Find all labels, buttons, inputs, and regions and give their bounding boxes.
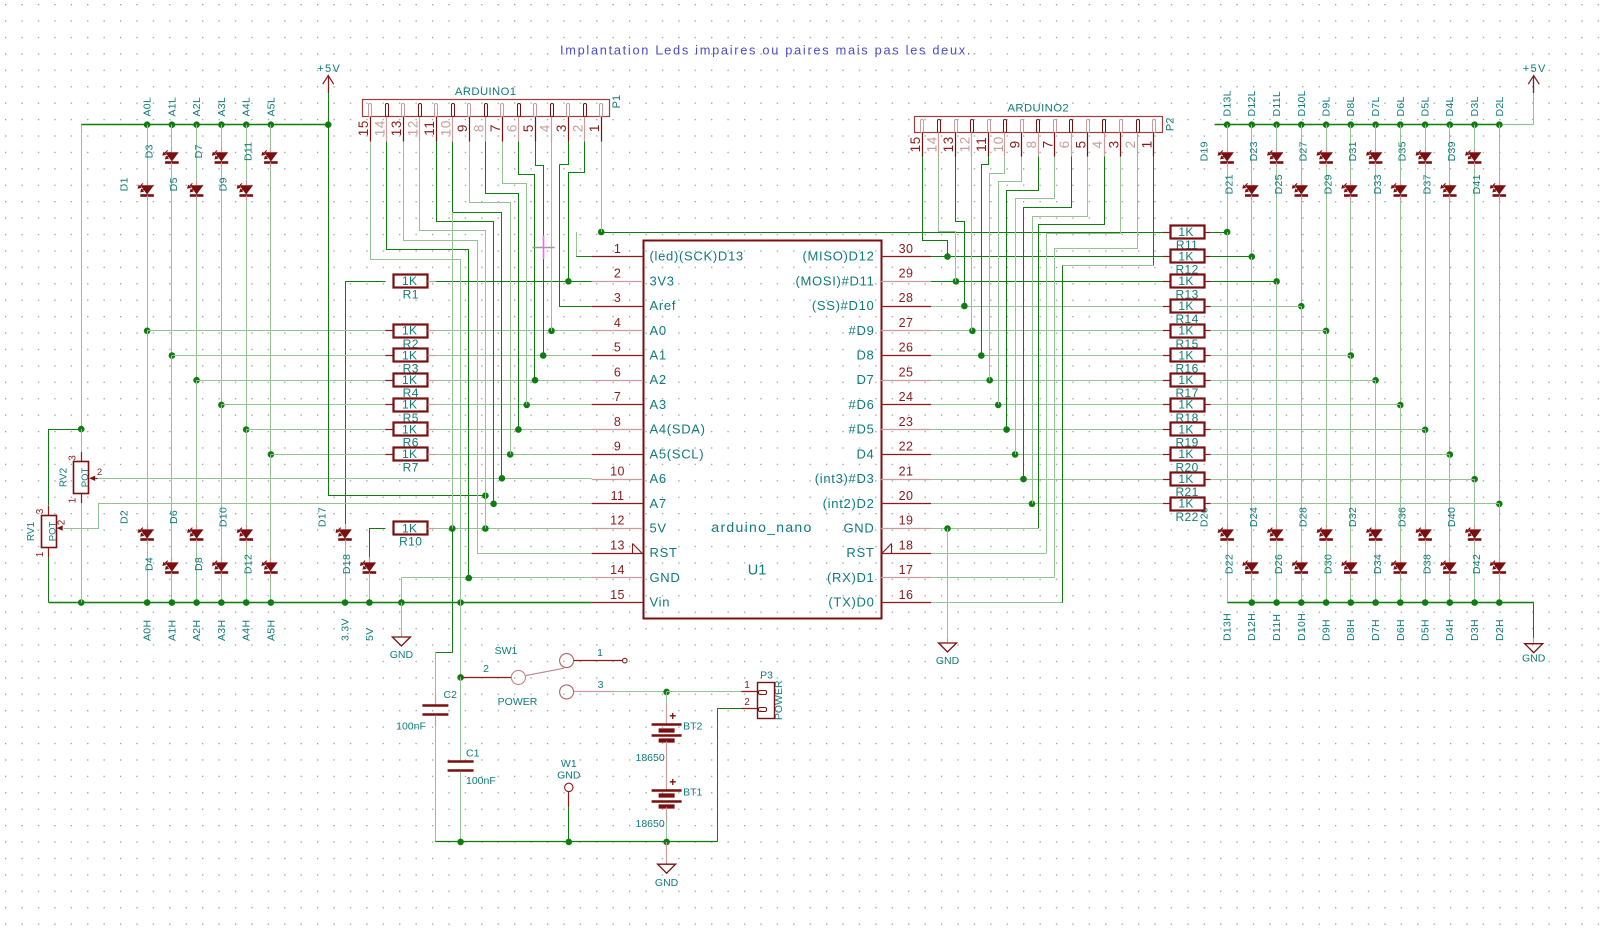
- svg-text:D2L: D2L: [1494, 96, 1506, 116]
- wire bottom bus right: [1227, 602, 1534, 604]
- wire P2 pin 11 staircase to row 26: [982, 157, 989, 356]
- svg-text:1: 1: [68, 497, 79, 503]
- wire A4 row stub into resistor: [385, 429, 393, 431]
- svg-text:15: 15: [610, 588, 625, 602]
- wire A4 row from R6 to U1: [428, 429, 436, 431]
- junction +5V left: [325, 121, 332, 128]
- U1 pin 10 stub: [592, 479, 643, 481]
- wire column A3H to bottom bus: [221, 578, 223, 603]
- svg-text:100nF: 100nF: [396, 721, 426, 733]
- svg-text:A1H: A1H: [166, 620, 178, 641]
- svg-text:D12H: D12H: [1246, 613, 1258, 641]
- P2 pin 15: [921, 120, 924, 133]
- wire U1 pin 18 RST row: [931, 553, 1046, 555]
- ground GND left of U1: [401, 632, 403, 638]
- junction D11H bottom bus: [1273, 599, 1280, 606]
- P1 pin 6: [518, 104, 521, 117]
- wire P2 pin 1 staircase to row 16: [1153, 157, 1155, 266]
- junction A3L top bus: [218, 121, 225, 128]
- connector P2 ARDUINO2: [915, 117, 1163, 133]
- svg-text:22: 22: [899, 440, 914, 454]
- U1 pin 13 stub: [592, 553, 643, 555]
- junction D6H bottom bus: [1397, 599, 1404, 606]
- wire column D3L middle: [1474, 167, 1476, 479]
- wire P2 pin 10 staircase to row 25: [990, 157, 1005, 381]
- junction row 21 fan: [1020, 476, 1027, 483]
- svg-text:D8H: D8H: [1345, 619, 1357, 641]
- svg-text:(int3)#D3: (int3)#D3: [815, 471, 875, 486]
- wire column D9H to bottom bus: [1326, 545, 1328, 603]
- wire column D8H to bottom bus: [1350, 578, 1352, 603]
- wire column D10L top: [1301, 125, 1303, 180]
- svg-text:W1: W1: [561, 758, 577, 770]
- svg-text:21: 21: [899, 464, 914, 478]
- wire column D10H lower: [1301, 306, 1303, 557]
- svg-text:1K: 1K: [402, 447, 417, 461]
- wire P1 pin 10 staircase to row 10: [453, 142, 502, 480]
- svg-text:2: 2: [483, 663, 489, 675]
- junction D5H bottom bus: [1422, 599, 1429, 606]
- wire A2 row stub into resistor: [385, 380, 393, 382]
- LED D35: [1425, 147, 1427, 152]
- junction A2H bottom bus: [193, 599, 200, 606]
- resistor R17: [1171, 374, 1205, 387]
- wire column A5L middle: [270, 167, 272, 454]
- wire U1 pin 16 TX row: [931, 602, 1063, 604]
- svg-text:1: 1: [1140, 140, 1155, 148]
- wire row 25 resistor stub: [1163, 380, 1170, 382]
- wire A2 row from R4 to U1: [428, 380, 436, 382]
- connector P1 ARDUINO1: [363, 100, 610, 117]
- svg-text:Vin: Vin: [650, 595, 671, 610]
- svg-text:D35: D35: [1397, 141, 1409, 161]
- wire Aref row: [560, 165, 592, 307]
- LED D5: [196, 180, 198, 185]
- wire A1 row from column to R3: [172, 355, 385, 357]
- junction row 20 fan: [1029, 501, 1036, 508]
- svg-text:A5H: A5H: [265, 620, 277, 641]
- wire column A1L top: [171, 125, 173, 147]
- svg-text:#D9: #D9: [849, 323, 875, 338]
- U1 pin 19 stub: [881, 528, 931, 530]
- svg-text:D7: D7: [856, 372, 874, 387]
- svg-text:GND: GND: [557, 769, 581, 781]
- junction 5V bottom bus: [366, 599, 373, 606]
- wire P2 pin 6 staircase to row 21: [1024, 157, 1072, 480]
- wire R22 to LED column: [1204, 503, 1211, 505]
- svg-text:12: 12: [610, 514, 625, 528]
- svg-text:4: 4: [538, 124, 553, 132]
- wire column A4H lower: [246, 430, 248, 524]
- LED D8: [221, 557, 223, 562]
- LED D21: [1251, 180, 1253, 185]
- svg-text:D4: D4: [856, 446, 874, 461]
- svg-text:27: 27: [899, 316, 914, 330]
- P3 pin 2: [741, 708, 757, 710]
- wire column D10L middle: [1301, 200, 1303, 306]
- svg-text:(int2)D2: (int2)D2: [823, 496, 875, 511]
- LED D18: [369, 557, 371, 562]
- svg-text:ARDUINO2: ARDUINO2: [1008, 103, 1070, 115]
- wire R19 to LED column: [1204, 429, 1211, 431]
- svg-text:BT1: BT1: [683, 786, 702, 798]
- wire column D11H to bottom bus: [1276, 545, 1278, 603]
- wire A3 row from R5 to U1: [428, 404, 436, 406]
- wire P2 pin 7 staircase to row 22: [1016, 157, 1055, 455]
- wire column D7H to bottom bus: [1375, 545, 1377, 603]
- svg-text:1K: 1K: [1178, 422, 1193, 436]
- junction A3H bottom bus: [218, 599, 225, 606]
- svg-text:3: 3: [68, 455, 79, 461]
- wire A6 row (RV2 wiper to U1 pin 10): [98, 478, 592, 480]
- LED D31: [1375, 147, 1377, 152]
- svg-text:GND: GND: [650, 570, 681, 585]
- svg-text:1K: 1K: [1178, 299, 1193, 313]
- svg-text:20: 20: [899, 489, 914, 503]
- wire column D9L middle: [1326, 167, 1328, 331]
- junction A1 row fan: [540, 352, 547, 359]
- svg-text:D12L: D12L: [1246, 90, 1258, 116]
- junction column 2 mid: [169, 352, 176, 359]
- resistor R5: [394, 399, 428, 412]
- wire column A3L top: [221, 125, 223, 147]
- svg-text:1K: 1K: [402, 521, 417, 535]
- wire column D4H lower: [1449, 455, 1451, 558]
- wire U1 pin 20 row: [931, 503, 1163, 505]
- wire column D9L top: [1326, 125, 1328, 147]
- svg-text:7: 7: [488, 124, 503, 132]
- junction row 23 fan: [1003, 426, 1010, 433]
- junction D9H bottom bus: [1323, 599, 1330, 606]
- svg-text:D30: D30: [1322, 554, 1334, 574]
- junction row 27 fan: [969, 328, 976, 335]
- P2 pin 8: [1037, 120, 1040, 133]
- svg-text:D10H: D10H: [1296, 613, 1308, 641]
- junction A5H bottom bus: [268, 599, 275, 606]
- wire U1 pin 28 row: [931, 306, 1163, 308]
- svg-text:P1: P1: [611, 95, 623, 108]
- svg-text:RV1: RV1: [26, 521, 37, 541]
- svg-text:A3: A3: [650, 397, 667, 412]
- junction D8H bottom bus: [1348, 599, 1355, 606]
- svg-text:3: 3: [1107, 140, 1122, 148]
- wire bottom GND rail: [436, 841, 718, 843]
- svg-text:10: 10: [991, 136, 1006, 152]
- svg-text:1K: 1K: [1178, 398, 1193, 412]
- svg-text:A0: A0: [650, 323, 667, 338]
- svg-text:R22: R22: [1175, 510, 1198, 524]
- U1 pin 25 stub: [881, 380, 931, 382]
- LED D12: [270, 557, 272, 562]
- junction RV1/RV2 branch: [78, 426, 85, 433]
- svg-text:D6L: D6L: [1395, 96, 1407, 116]
- resistor R13: [1171, 275, 1205, 288]
- wire +5V top bus right: [1215, 124, 1500, 126]
- svg-text:D4H: D4H: [1444, 619, 1456, 641]
- LED D23: [1276, 147, 1278, 152]
- junction 5V row at C2 branch: [449, 525, 456, 532]
- svg-text:A5(SCL): A5(SCL): [650, 446, 705, 461]
- wire 5V to C2: [436, 652, 453, 654]
- svg-text:D40: D40: [1446, 507, 1458, 527]
- svg-text:8: 8: [472, 124, 487, 132]
- wire P2 pin 8 staircase to row 23: [1007, 157, 1039, 430]
- wire column D11H lower: [1276, 281, 1278, 524]
- wire P1 pin 5 staircase to row 5: [536, 142, 544, 356]
- U1 pin 3 stub: [592, 306, 643, 308]
- LED D37: [1449, 180, 1451, 185]
- svg-text:6: 6: [505, 124, 520, 132]
- junction row 24 fan: [995, 402, 1002, 409]
- junction +5V to 5V fan column: [482, 492, 489, 499]
- wire R21 to LED column: [1204, 479, 1211, 481]
- junction right column 12 mid: [1496, 501, 1503, 508]
- P2 pin 12: [971, 120, 974, 133]
- wire row 24 resistor stub: [1163, 404, 1170, 406]
- svg-text:RV2: RV2: [59, 467, 70, 487]
- wire column D5L middle: [1425, 167, 1427, 430]
- svg-text:RST: RST: [846, 545, 874, 560]
- svg-text:+: +: [669, 709, 676, 723]
- svg-text:29: 29: [899, 267, 914, 281]
- U1 pin 28 stub: [881, 306, 931, 308]
- svg-text:A1: A1: [650, 348, 667, 363]
- wire column D2L top: [1499, 125, 1501, 180]
- svg-text:D27: D27: [1298, 141, 1310, 161]
- wire Vin column to switch: [460, 603, 462, 678]
- wire column D2H to bottom bus: [1499, 578, 1501, 603]
- LED D22: [1251, 557, 1253, 562]
- junction Vin row fan: [457, 599, 464, 606]
- wire bottom bus left (Vin/GND rail): [49, 602, 592, 604]
- P1 pin 9: [468, 104, 471, 117]
- junction column 4 mid: [218, 402, 225, 409]
- svg-text:3V3: 3V3: [650, 273, 675, 288]
- potentiometer RV2: [81, 429, 83, 461]
- junction battery feed: [663, 689, 670, 696]
- svg-text:arduino_nano: arduino_nano: [711, 519, 812, 535]
- svg-text:2: 2: [744, 697, 750, 708]
- P2 pin 11: [988, 120, 991, 133]
- svg-text:14: 14: [925, 136, 940, 152]
- LED D32: [1375, 524, 1377, 529]
- junction right column 3 mid: [1273, 278, 1280, 285]
- svg-text:D4: D4: [143, 557, 155, 571]
- P1 pin 11: [435, 104, 438, 117]
- svg-text:A7: A7: [650, 496, 667, 511]
- junction A0H bottom bus: [144, 599, 151, 606]
- svg-text:D29: D29: [1322, 174, 1334, 194]
- wire SW1 pin 1 no-connect: [574, 660, 623, 662]
- wire column D4L top: [1449, 125, 1451, 180]
- wire U1 pin 27 row: [931, 330, 1163, 332]
- LED D34: [1400, 557, 1402, 562]
- svg-text:23: 23: [899, 415, 914, 429]
- LED D17: [345, 524, 347, 529]
- U1 pin 1 stub: [592, 256, 643, 258]
- svg-text:D3H: D3H: [1469, 619, 1481, 641]
- P1 pin 12: [419, 104, 422, 117]
- wire column A2H to bottom bus: [196, 545, 198, 603]
- wire column D3H lower: [1474, 479, 1476, 524]
- LED D6: [196, 524, 198, 529]
- wire column D4H to bottom bus: [1449, 578, 1451, 603]
- svg-text:D11H: D11H: [1271, 614, 1283, 641]
- U1 pin 7 stub: [592, 404, 643, 406]
- svg-text:1K: 1K: [1178, 373, 1193, 387]
- junction battery bottom rail: [663, 839, 670, 846]
- svg-text:1: 1: [587, 124, 602, 132]
- svg-text:5: 5: [521, 124, 536, 132]
- U1 pin 13 RST mark: [633, 544, 643, 554]
- svg-text:(MOSI)#D11: (MOSI)#D11: [796, 273, 875, 288]
- svg-text:D17: D17: [317, 507, 329, 527]
- svg-text:#D6: #D6: [849, 397, 875, 412]
- wire column D8L top: [1350, 125, 1352, 180]
- junction column 3 mid: [193, 377, 200, 384]
- junction D10H bottom bus: [1298, 599, 1305, 606]
- wire A4 row from column to R6: [246, 429, 385, 431]
- svg-text:D13L: D13L: [1222, 90, 1234, 116]
- junction GND row fan: [466, 575, 473, 582]
- junction A1H bottom bus: [169, 599, 176, 606]
- wire C1 to bottom rail: [460, 771, 462, 842]
- svg-text:2: 2: [571, 124, 586, 132]
- junction A4H bottom bus: [243, 599, 250, 606]
- P2 pin 4: [1103, 120, 1106, 133]
- svg-text:11: 11: [611, 489, 625, 503]
- P2 pin 10: [1004, 120, 1007, 133]
- junction row 22 fan: [1012, 451, 1019, 458]
- wire column D5L top: [1425, 125, 1427, 147]
- junction switch pin 2: [457, 674, 464, 681]
- wire BT2 to BT1: [666, 742, 668, 790]
- junction A2L top bus: [193, 121, 200, 128]
- wire column D8L middle: [1350, 200, 1352, 355]
- wire column D13L top: [1227, 125, 1229, 147]
- junction right column 10 mid: [1447, 451, 1454, 458]
- junction D13L top bus: [1224, 121, 1231, 128]
- P1 pin 15: [369, 104, 372, 117]
- svg-text:D4L: D4L: [1444, 96, 1456, 116]
- LED D40: [1474, 524, 1476, 529]
- wire column D6L middle: [1400, 200, 1402, 405]
- junction A7 row fan: [490, 501, 497, 508]
- ground GND battery: [666, 842, 668, 859]
- U1 pin 5 stub: [592, 355, 643, 357]
- wire P2 pin 3 staircase to row 18: [1047, 157, 1121, 554]
- wire U1 pin 1 row riser: [576, 232, 578, 257]
- U1 pin 17 stub: [881, 577, 931, 579]
- svg-text:4: 4: [1090, 140, 1105, 148]
- P2 pin 2: [1137, 120, 1140, 133]
- wire column A1H lower: [171, 356, 173, 558]
- svg-text:D2H: D2H: [1494, 619, 1506, 641]
- svg-text:D24: D24: [1248, 507, 1260, 527]
- wire column A2H lower: [196, 380, 198, 524]
- wire column A5H lower: [270, 454, 272, 557]
- wire column D7L top: [1375, 125, 1377, 147]
- U1 pin 15 stub: [592, 602, 643, 604]
- svg-text:1K: 1K: [402, 422, 417, 436]
- wire A3 row from column to R5: [221, 404, 385, 406]
- LED D27: [1326, 147, 1328, 152]
- junction A2 row fan: [532, 377, 539, 384]
- wire P2 pin 13 staircase to row 28: [956, 157, 965, 307]
- U1 pin 29 stub: [881, 281, 931, 283]
- wire P1 pin 4 drop to A0 row: [551, 142, 553, 331]
- svg-text:R7: R7: [403, 460, 419, 474]
- wire right bus GND drop: [1533, 603, 1535, 639]
- wire column A3L middle: [221, 167, 223, 405]
- svg-text:1K: 1K: [1178, 348, 1193, 362]
- wire RV1 pin1 to bottom bus: [48, 548, 50, 603]
- P2 pin 9: [1021, 120, 1024, 133]
- P1 pin 3: [567, 104, 570, 117]
- svg-text:(RX)D1: (RX)D1: [827, 570, 875, 585]
- svg-text:(led)(SCK)D13: (led)(SCK)D13: [650, 249, 744, 264]
- svg-text:3: 3: [554, 124, 569, 132]
- svg-text:(SS)#D10: (SS)#D10: [812, 298, 875, 313]
- U1 pin 18 RST mark: [882, 544, 892, 554]
- LED D19: [1227, 147, 1229, 152]
- U1 pin 21 stub: [881, 479, 931, 481]
- junction A1L top bus: [169, 121, 176, 128]
- LED D7: [221, 147, 223, 152]
- wire A0 row from column to R2: [147, 330, 385, 332]
- svg-text:D39: D39: [1446, 141, 1458, 161]
- svg-text:GND: GND: [390, 649, 414, 661]
- U1 pin 8 stub: [592, 429, 643, 431]
- LED D39: [1474, 147, 1476, 152]
- svg-text:GND: GND: [844, 521, 875, 536]
- junction D5L top bus: [1422, 121, 1429, 128]
- wire column A4L middle: [246, 200, 248, 429]
- wire GND drop right: [947, 529, 949, 638]
- P1 pin 1: [600, 104, 603, 117]
- svg-text:A2L: A2L: [191, 97, 203, 117]
- junction D12H bottom bus: [1249, 599, 1256, 606]
- wire row 30 resistor stub: [1163, 256, 1170, 258]
- wire column D7L middle: [1375, 167, 1377, 380]
- P2 pin 14: [938, 120, 941, 133]
- svg-text:C2: C2: [444, 689, 458, 701]
- P1 pin 4: [551, 104, 554, 117]
- U1 pin 27 stub: [881, 330, 931, 332]
- svg-text:1K: 1K: [1178, 225, 1193, 239]
- svg-text:GND: GND: [936, 655, 960, 667]
- svg-text:11: 11: [422, 120, 437, 135]
- svg-text:D8L: D8L: [1345, 96, 1357, 116]
- resistor R15: [1171, 325, 1205, 338]
- junction D8L top bus: [1348, 121, 1355, 128]
- svg-text:1K: 1K: [1178, 472, 1193, 486]
- svg-text:A6: A6: [650, 471, 667, 486]
- junction D7L top bus: [1372, 121, 1379, 128]
- U1 pin 2 stub: [592, 281, 643, 283]
- svg-text:A5L: A5L: [265, 97, 277, 117]
- wire column D11L middle: [1276, 167, 1278, 281]
- svg-text:25: 25: [899, 365, 914, 379]
- LED D30: [1350, 557, 1352, 562]
- wire row 22 resistor stub: [1163, 454, 1170, 456]
- svg-text:R1: R1: [403, 287, 419, 301]
- svg-text:7: 7: [1040, 140, 1055, 148]
- U1 pin 4 stub: [592, 330, 643, 332]
- wire U1 pin 26 row: [931, 355, 1163, 357]
- wire U1 pin 25 row: [931, 380, 1163, 382]
- svg-text:D5: D5: [168, 177, 180, 191]
